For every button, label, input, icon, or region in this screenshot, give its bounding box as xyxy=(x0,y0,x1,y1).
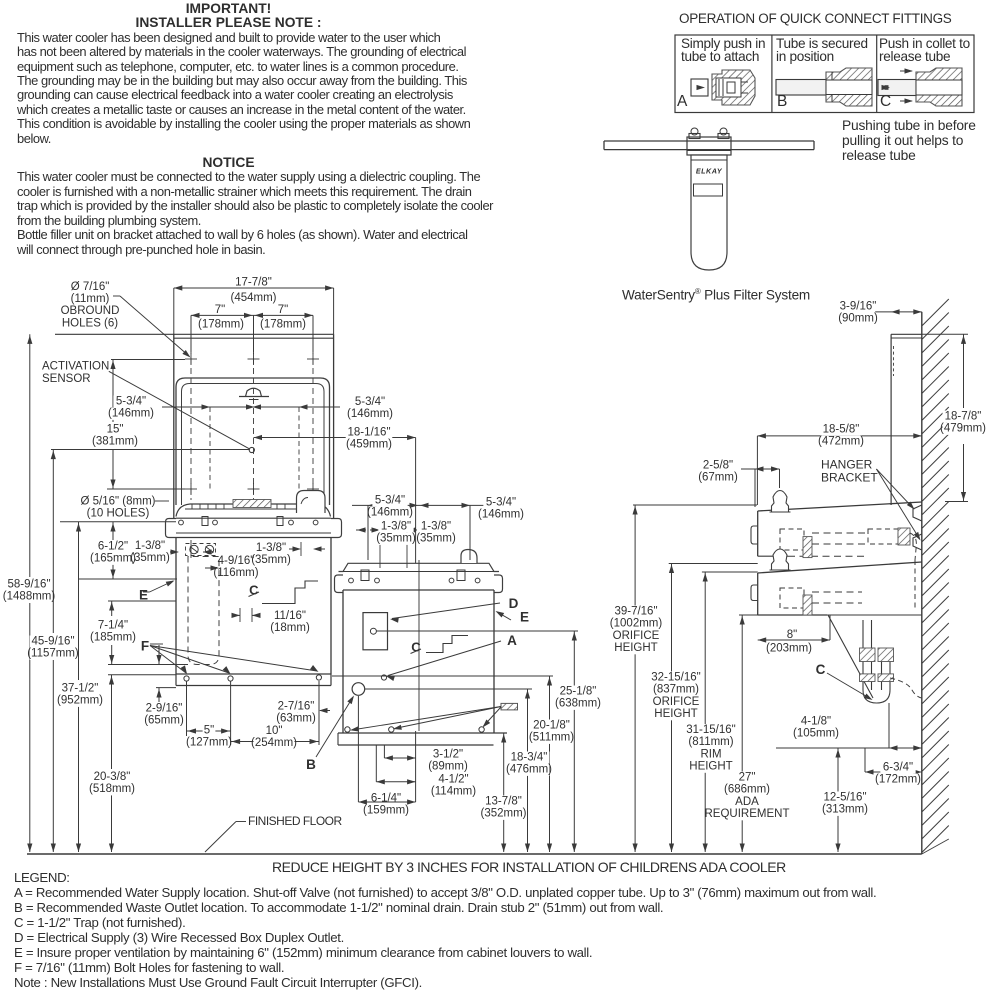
dim 17-7/8 line xyxy=(174,287,334,289)
wall anchor symbol and leaders xyxy=(501,703,518,710)
cutout stepped line cooler xyxy=(426,636,468,653)
svg-text:(18mm): (18mm) xyxy=(270,622,310,634)
cell C fitting xyxy=(916,68,962,106)
quick connect cell captions xyxy=(681,38,765,64)
cabinet left edge xyxy=(175,538,177,675)
dim 15in vertical xyxy=(112,360,114,423)
label 1-3/8 cooler right xyxy=(418,521,453,533)
svg-text:(518mm): (518mm) xyxy=(89,783,135,795)
base ref line y675 left ext xyxy=(108,674,176,676)
cell C release arrows xyxy=(900,70,912,72)
label 1-3/8 cooler left xyxy=(378,521,413,533)
pushing tube note xyxy=(842,118,976,164)
svg-text:(146mm): (146mm) xyxy=(478,509,524,521)
svg-text:HEIGHT: HEIGHT xyxy=(654,708,697,720)
svg-text:(352mm): (352mm) xyxy=(480,808,526,820)
sensor height ref line y449 xyxy=(51,449,249,451)
svg-text:27": 27" xyxy=(739,771,756,783)
panel left edge xyxy=(173,334,175,518)
waste line diagonal xyxy=(828,615,873,698)
label 31-15/16 rim height xyxy=(685,724,737,736)
operation of quick connect fittings title xyxy=(679,11,952,26)
svg-text:(89mm): (89mm) xyxy=(428,761,468,773)
svg-text:(686mm): (686mm) xyxy=(724,784,770,796)
svg-text:(638mm): (638mm) xyxy=(555,698,601,710)
ada ref line y615 xyxy=(739,614,922,616)
svg-text:(65mm): (65mm) xyxy=(144,715,184,727)
cell A fitting body xyxy=(712,70,755,105)
recess opening outer xyxy=(176,378,330,505)
dim 18-1/16 line xyxy=(254,437,416,439)
dim 12-5/16 vertical xyxy=(837,748,839,852)
strip holes xyxy=(179,520,184,525)
cutout stepped line left unit xyxy=(262,581,318,604)
orifice ref line y505 xyxy=(633,504,757,506)
svg-text:6-3/4": 6-3/4" xyxy=(883,761,913,773)
obround leader xyxy=(113,295,120,297)
label 2-9/16 xyxy=(144,703,185,715)
svg-text:F: F xyxy=(141,639,149,654)
label 27 ada requirement xyxy=(738,772,756,784)
svg-text:6-1/2": 6-1/2" xyxy=(98,540,128,552)
dim 39-7/16 vertical xyxy=(634,505,636,852)
obround holes top row xyxy=(185,358,197,360)
electrical rough-in dashed box xyxy=(188,557,219,665)
cooler right ear xyxy=(494,575,503,593)
hanger bracket leaders xyxy=(876,469,913,508)
svg-text:(35mm): (35mm) xyxy=(416,533,456,545)
svg-text:45-9/16": 45-9/16" xyxy=(31,635,74,647)
svg-text:31-15/16": 31-15/16" xyxy=(686,724,735,736)
svg-text:(114mm): (114mm) xyxy=(431,786,476,798)
label 5-3/4 cooler left xyxy=(372,495,407,507)
label 7-1/4 xyxy=(95,620,130,632)
svg-text:39-7/16": 39-7/16" xyxy=(614,605,657,617)
svg-text:(127mm): (127mm) xyxy=(186,737,232,749)
dim 7-1/4 vertical xyxy=(111,601,113,616)
bracket ref line y579 xyxy=(78,578,177,580)
activation sensor leader xyxy=(109,371,250,449)
wall line xyxy=(921,312,923,854)
svg-text:(11mm): (11mm) xyxy=(71,293,110,305)
svg-text:(479mm): (479mm) xyxy=(940,423,986,435)
svg-text:E: E xyxy=(139,588,148,603)
svg-text:7": 7" xyxy=(278,304,288,316)
svg-text:15": 15" xyxy=(107,423,124,435)
svg-text:(10 HOLES): (10 HOLES) xyxy=(87,508,150,520)
svg-text:5-3/4": 5-3/4" xyxy=(375,494,405,506)
svg-text:7-1/4": 7-1/4" xyxy=(98,619,128,631)
ref line y676 for 20-1/8 xyxy=(332,675,553,677)
label 45-9/16 xyxy=(30,636,77,648)
dim 18-7/8 vertical xyxy=(963,334,965,408)
svg-text:(90mm): (90mm) xyxy=(838,313,878,325)
cooler bubbler front xyxy=(461,550,477,564)
svg-text:HOLES (6): HOLES (6) xyxy=(62,317,118,329)
dim 5in line xyxy=(187,730,231,732)
lower push button xyxy=(751,585,758,601)
svg-text:HANGER: HANGER xyxy=(821,458,873,472)
lower bubbler side xyxy=(772,549,789,570)
cartridge label window xyxy=(694,184,723,196)
dim 1-3/8 arrows center pair xyxy=(289,548,300,550)
svg-text:25-1/8": 25-1/8" xyxy=(560,685,597,697)
dim 18-3/4 vertical xyxy=(527,689,529,852)
dim 2-9/16 arrows xyxy=(158,645,160,665)
label 20-1/8 xyxy=(531,720,572,732)
side panel top cap xyxy=(891,333,922,335)
svg-text:(203mm): (203mm) xyxy=(766,643,812,655)
lower unit top slant xyxy=(758,562,922,573)
svg-text:13-7/8": 13-7/8" xyxy=(485,795,522,807)
hanger bracket on wall upper xyxy=(913,505,922,521)
filter cartridge body xyxy=(691,155,727,270)
dim 1-3/8 arrows left pair xyxy=(170,551,178,553)
ref line y601 xyxy=(108,600,176,602)
svg-text:ORIFICE: ORIFICE xyxy=(653,696,700,708)
ref line y631 for 25-1/8 xyxy=(376,630,578,632)
svg-text:(105mm): (105mm) xyxy=(793,728,839,740)
cooler centerline xyxy=(418,560,420,731)
hanger bracket on wall lower xyxy=(913,534,922,550)
ref line y664.5 xyxy=(108,664,188,666)
dim 8 line xyxy=(758,639,830,641)
F bolt hole leaders xyxy=(150,646,186,674)
label 10in xyxy=(265,725,283,737)
finished floor line xyxy=(27,853,922,855)
lower internals dashed xyxy=(780,588,804,608)
label 39-7/16 orifice height xyxy=(613,606,660,618)
svg-text:ELKAY: ELKAY xyxy=(696,167,723,176)
svg-text:(159mm): (159mm) xyxy=(363,805,409,817)
svg-text:6-1/4": 6-1/4" xyxy=(371,792,401,804)
cell A tube xyxy=(691,79,708,96)
svg-text:REQUIREMENT: REQUIREMENT xyxy=(705,808,790,820)
dim 5-3/4 center unit line xyxy=(352,504,486,506)
dim 3-9/16 line xyxy=(875,311,922,313)
dim 4-1/8 line xyxy=(776,747,922,749)
label 13-7/8 xyxy=(483,796,524,808)
svg-text:4-1/2": 4-1/2" xyxy=(438,773,468,785)
svg-text:1-3/8": 1-3/8" xyxy=(381,520,411,532)
label 58-9/16 xyxy=(6,579,53,591)
upper bubbler side xyxy=(772,491,789,513)
svg-text:2-5/8": 2-5/8" xyxy=(703,459,733,471)
cooler strip slots xyxy=(361,570,369,581)
svg-text:18-5/8": 18-5/8" xyxy=(823,423,860,435)
basin rim ref line y522 xyxy=(60,521,176,523)
svg-text:(254mm): (254mm) xyxy=(251,737,297,749)
lower unit front edge xyxy=(757,573,759,615)
svg-text:5": 5" xyxy=(204,724,214,736)
dim 7-7 line xyxy=(191,314,313,316)
svg-text:(837mm): (837mm) xyxy=(653,684,699,696)
svg-text:D: D xyxy=(509,596,519,611)
svg-text:4-1/8": 4-1/8" xyxy=(801,715,831,727)
cooler body sides xyxy=(342,590,344,733)
label 5in xyxy=(203,725,216,737)
svg-text:(116mm): (116mm) xyxy=(213,567,258,579)
svg-text:7": 7" xyxy=(215,304,225,316)
basin drain grille xyxy=(233,500,271,508)
sensor offset dashed ext lines xyxy=(209,407,211,489)
dim 11/16 arrows xyxy=(233,614,240,616)
svg-text:SENSOR: SENSOR xyxy=(42,373,91,385)
label 2-7/16 xyxy=(276,701,317,713)
svg-text:5-3/4": 5-3/4" xyxy=(486,496,516,508)
svg-text:Ø 7/16": Ø 7/16" xyxy=(71,281,110,293)
dim 13-7/8 vertical xyxy=(503,733,505,852)
svg-text:10": 10" xyxy=(266,725,283,737)
svg-text:11/16": 11/16" xyxy=(274,610,306,622)
upper push button xyxy=(751,526,758,544)
lower unit bottom xyxy=(758,614,827,616)
svg-text:ORIFICE: ORIFICE xyxy=(613,630,660,642)
svg-text:17-7/8": 17-7/8" xyxy=(235,277,272,289)
svg-text:FINISHED FLOOR: FINISHED FLOOR xyxy=(248,814,343,828)
svg-text:(381mm): (381mm) xyxy=(92,436,138,448)
dim 4-1/2 line xyxy=(376,781,415,783)
dim 5-3/4 left-right line xyxy=(162,406,340,408)
svg-text:OBROUND: OBROUND xyxy=(61,305,120,317)
svg-text:ADA: ADA xyxy=(735,796,759,808)
cell C tube xyxy=(878,80,934,96)
E leader left xyxy=(150,581,174,592)
label 4-1/8 xyxy=(798,716,833,728)
dim 45-9/16 vertical xyxy=(52,450,54,634)
cooler rim line xyxy=(339,563,500,571)
panel top band xyxy=(55,333,334,335)
reduce height note xyxy=(272,859,786,875)
dim 27 vertical xyxy=(741,615,743,852)
dim 20-1/8 vertical xyxy=(549,676,551,852)
svg-text:(146mm): (146mm) xyxy=(367,507,413,519)
svg-text:58-9/16": 58-9/16" xyxy=(7,578,50,590)
cell B tube xyxy=(776,80,832,96)
basin grille ticks xyxy=(191,505,193,510)
terminal screws xyxy=(190,545,198,553)
label 12-5/16 xyxy=(822,792,869,804)
svg-text:(1488mm): (1488mm) xyxy=(3,591,56,603)
filter head xyxy=(687,137,731,155)
label 18-3/4 xyxy=(509,752,550,764)
label 18-5/8 xyxy=(821,424,862,436)
label 6-3/4 xyxy=(880,762,915,774)
svg-text:(172mm): (172mm) xyxy=(875,774,921,786)
svg-text:4-9/16": 4-9/16" xyxy=(218,555,255,567)
svg-text:(472mm): (472mm) xyxy=(818,436,864,448)
svg-text:1-3/8": 1-3/8" xyxy=(421,520,451,532)
label 2-5/8 xyxy=(700,460,735,472)
svg-text:12-5/16": 12-5/16" xyxy=(823,791,866,803)
svg-text:(67mm): (67mm) xyxy=(698,472,738,484)
waste outlet circle B xyxy=(352,683,365,696)
label 15 xyxy=(106,424,124,436)
svg-text:C: C xyxy=(816,662,826,677)
side panel front edge xyxy=(890,334,892,505)
svg-text:37-1/2": 37-1/2" xyxy=(62,682,99,694)
svg-text:18-1/16": 18-1/16" xyxy=(347,426,390,438)
rim ref line y572 xyxy=(702,571,758,573)
dim 3-1/2 line xyxy=(384,757,415,759)
wall hatching xyxy=(922,299,949,326)
label 20-3/8 xyxy=(92,771,133,783)
panel right edge xyxy=(333,334,335,518)
obround holes bottom row xyxy=(185,488,197,490)
label 18-1/16 xyxy=(346,427,393,439)
svg-text:(811mm): (811mm) xyxy=(688,736,733,748)
watersentry caption xyxy=(622,287,810,303)
bottle filler bubbler xyxy=(297,491,326,514)
dim 58-9/16 vertical xyxy=(29,334,31,577)
svg-text:(459mm): (459mm) xyxy=(346,439,392,451)
strip slots xyxy=(202,517,208,526)
label 18-7/8 xyxy=(943,411,984,423)
svg-text:2-7/16": 2-7/16" xyxy=(278,700,315,712)
svg-text:B: B xyxy=(306,757,316,772)
dim 37-1/2 vertical xyxy=(78,522,80,680)
legend xyxy=(14,870,994,990)
dim 6-1/2 vertical xyxy=(112,522,114,540)
left mounting ear xyxy=(166,519,177,538)
svg-text:8": 8" xyxy=(787,629,797,641)
svg-text:HEIGHT: HEIGHT xyxy=(689,761,732,773)
svg-text:20-3/8": 20-3/8" xyxy=(94,771,131,783)
right mounting ear xyxy=(331,519,342,538)
basin deck left unit xyxy=(176,504,331,517)
svg-text:(1002mm): (1002mm) xyxy=(610,618,663,630)
svg-text:1-3/8": 1-3/8" xyxy=(135,540,165,552)
mounting strip xyxy=(176,517,331,519)
dim 31-15/16 vertical xyxy=(704,572,706,852)
svg-text:2-9/16": 2-9/16" xyxy=(146,702,183,714)
dim 1-3/8 center unit arrows xyxy=(356,529,366,531)
upper internals dashed xyxy=(780,529,804,550)
label 6-1/2 xyxy=(95,541,130,553)
lower orifice ref line y563.5 xyxy=(669,563,758,565)
waste to wall dashed curve xyxy=(890,678,922,698)
upper unit bottom xyxy=(758,555,788,557)
top-left installer note text block xyxy=(17,2,487,257)
svg-text:(146mm): (146mm) xyxy=(108,408,154,420)
filter dashed inside panel xyxy=(893,346,895,376)
filter bracket arms xyxy=(604,140,814,142)
svg-text:1-3/8": 1-3/8" xyxy=(256,542,286,554)
svg-text:(952mm): (952mm) xyxy=(57,695,103,707)
svg-text:5-3/4": 5-3/4" xyxy=(355,396,385,408)
svg-text:ACTIVATION: ACTIVATION xyxy=(42,361,109,373)
dim 6-1/4 line xyxy=(358,801,415,803)
svg-text:(313mm): (313mm) xyxy=(822,804,868,816)
upper unit top slant xyxy=(758,502,922,511)
dim 20-3/8 vertical xyxy=(111,675,113,769)
svg-text:18-7/8": 18-7/8" xyxy=(945,410,982,422)
svg-text:RIM: RIM xyxy=(700,748,721,760)
svg-text:(146mm): (146mm) xyxy=(347,408,393,420)
svg-text:(1157mm): (1157mm) xyxy=(27,648,79,660)
dim 18-5/8 line xyxy=(757,435,921,437)
label 25-1/8 xyxy=(558,686,599,698)
dim 2-5/8 line xyxy=(741,468,780,470)
svg-text:(63mm): (63mm) xyxy=(276,713,316,725)
spout at recess top xyxy=(239,396,269,398)
cabinet base band xyxy=(176,673,331,675)
dim 10in line xyxy=(231,741,319,743)
svg-text:BRACKET: BRACKET xyxy=(821,471,878,485)
dim 32-15/16 vertical xyxy=(671,564,673,853)
svg-text:(178mm): (178mm) xyxy=(198,319,244,331)
label 5-3/4 right of panel xyxy=(352,396,387,408)
svg-text:3-1/2": 3-1/2" xyxy=(433,748,463,760)
svg-text:20-1/8": 20-1/8" xyxy=(533,719,570,731)
cooler strip xyxy=(343,571,494,573)
svg-text:32-15/16": 32-15/16" xyxy=(651,671,700,683)
cooler left ear xyxy=(335,575,344,593)
cell B fitting xyxy=(826,68,872,106)
label 32-15/16 orifice height xyxy=(650,672,702,684)
dim 2-7/16 arrows xyxy=(286,710,296,712)
dim 25-1/8 vertical xyxy=(573,631,575,852)
label 5-3/4 cooler right xyxy=(483,497,518,509)
svg-text:(511mm): (511mm) xyxy=(529,732,574,744)
upper wall manifold dashed xyxy=(868,529,898,544)
recess opening inner xyxy=(182,384,325,506)
hole centerlines dashed xyxy=(190,338,192,500)
finished floor leader xyxy=(236,821,246,823)
base bolt holes xyxy=(184,676,189,681)
svg-text:HEIGHT: HEIGHT xyxy=(614,642,657,654)
svg-text:18-3/4": 18-3/4" xyxy=(511,751,548,763)
dim 6-3/4 line xyxy=(865,771,922,773)
cabinet right edge xyxy=(330,538,332,675)
svg-text:(35mm): (35mm) xyxy=(251,554,291,566)
svg-text:(454mm): (454mm) xyxy=(230,292,276,304)
electrical outlet box xyxy=(363,613,388,650)
activation sensor dot xyxy=(249,447,254,452)
trap assembly xyxy=(862,620,864,690)
svg-text:E: E xyxy=(520,610,529,625)
upper unit front edge xyxy=(757,511,759,556)
svg-text:Ø 5/16" (8mm): Ø 5/16" (8mm) xyxy=(80,495,155,507)
label 37-1/2 xyxy=(60,683,101,695)
quick connect fittings table frame xyxy=(675,35,974,113)
svg-text:(178mm): (178mm) xyxy=(260,319,306,331)
svg-text:(476mm): (476mm) xyxy=(506,764,552,776)
label 5-3/4 left xyxy=(113,396,148,408)
dim 18-7/8 top ref xyxy=(922,333,968,335)
B height ref line xyxy=(365,688,532,690)
svg-text:3-9/16": 3-9/16" xyxy=(840,300,877,312)
svg-text:5-3/4": 5-3/4" xyxy=(116,395,146,407)
svg-text:(35mm): (35mm) xyxy=(376,533,416,545)
svg-text:(35mm): (35mm) xyxy=(130,552,170,564)
svg-text:(185mm): (185mm) xyxy=(90,632,136,644)
cooler base band xyxy=(338,732,507,734)
dim 4-9/16 arrow xyxy=(205,567,218,569)
svg-text:A: A xyxy=(507,633,517,648)
